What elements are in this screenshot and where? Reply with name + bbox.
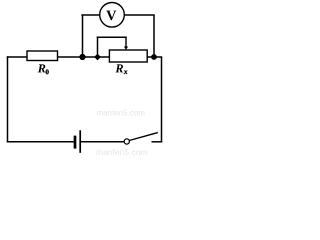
wire left vertical — [7, 56, 9, 142]
battery positive plate — [79, 130, 81, 153]
wire bottom-right stub — [152, 141, 163, 143]
wire voltmeter left vertical — [82, 15, 84, 57]
node dot2 — [94, 54, 101, 61]
wire battery to switch — [80, 141, 124, 143]
wire voltmeter right horizontal — [124, 14, 155, 16]
rheostat Rx — [109, 50, 147, 62]
node dot3 — [151, 54, 157, 60]
wire rheostat to right corner — [146, 56, 162, 58]
resistor R0 — [27, 51, 58, 61]
label R0 — [38, 64, 46, 72]
switch S pivot — [124, 139, 129, 144]
wire bottom horizontal to battery — [7, 141, 74, 143]
voltmeter U1 — [100, 3, 125, 28]
wire right vertical — [161, 57, 163, 143]
wire main horizontal R0 to rheostat — [56, 56, 110, 58]
switch lever — [129, 133, 158, 141]
wire wiper horizontal bracket — [97, 36, 127, 38]
label Rx — [115, 64, 123, 72]
svg-text:manfen5.com: manfen5.com — [97, 109, 146, 118]
svg-text:manfen5.com: manfen5.com — [96, 147, 148, 155]
wire voltmeter left horizontal — [81, 14, 100, 16]
wire voltmeter right vertical — [153, 15, 155, 57]
node dot1 — [79, 54, 85, 60]
wire top-left horizontal to R0 — [7, 56, 28, 58]
wiper arrow — [124, 37, 128, 50]
battery negative plate — [74, 136, 77, 149]
wire wiper vertical from node — [97, 37, 99, 58]
